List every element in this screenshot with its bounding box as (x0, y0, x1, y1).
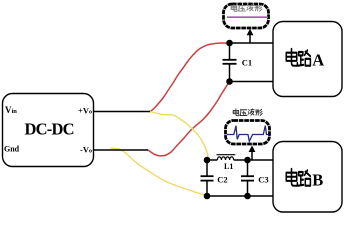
svg-text:Gnd: Gnd (4, 145, 20, 154)
svg-text:C1: C1 (242, 58, 252, 68)
svg-text:L1: L1 (224, 162, 233, 171)
svg-text:DC-DC: DC-DC (25, 120, 75, 139)
svg-text:C3: C3 (258, 174, 268, 184)
svg-text:B: B (312, 171, 323, 190)
svg-text:C2: C2 (217, 174, 227, 184)
svg-text:A: A (312, 51, 324, 70)
